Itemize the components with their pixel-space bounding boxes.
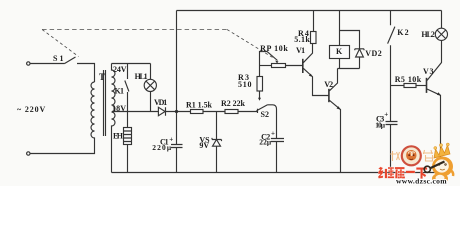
svg-text:S1: S1 <box>53 54 64 63</box>
svg-text:K2: K2 <box>397 28 408 37</box>
svg-text:RP 10k: RP 10k <box>260 44 288 53</box>
svg-text:22μ: 22μ <box>259 138 272 147</box>
svg-text:510: 510 <box>238 80 252 89</box>
svg-text:S2: S2 <box>261 110 270 119</box>
svg-text:~ 220V: ~ 220V <box>17 105 46 114</box>
svg-text:24V: 24V <box>113 65 127 74</box>
svg-text:9V: 9V <box>199 141 209 150</box>
svg-text:VD1: VD1 <box>154 98 167 107</box>
svg-text:5.1k: 5.1k <box>294 35 310 44</box>
svg-text:www.dzsc.com: www.dzsc.com <box>396 177 447 186</box>
svg-text:VD2: VD2 <box>365 49 382 58</box>
svg-text:10μ: 10μ <box>375 121 385 130</box>
svg-text:T: T <box>99 72 105 82</box>
svg-text:K1: K1 <box>115 87 125 96</box>
svg-text:220μ: 220μ <box>152 143 172 152</box>
svg-text:18V: 18V <box>112 104 126 113</box>
svg-text:+: + <box>271 130 275 138</box>
svg-text:V1: V1 <box>296 46 305 55</box>
svg-text:V3: V3 <box>423 67 434 76</box>
svg-text:HL1: HL1 <box>135 72 148 81</box>
svg-text:R2 22k: R2 22k <box>221 99 246 108</box>
svg-text:R5 10k: R5 10k <box>395 75 422 84</box>
svg-text:K: K <box>336 47 343 56</box>
svg-text:+: + <box>384 110 388 118</box>
svg-text:R1 1.5k: R1 1.5k <box>186 100 213 109</box>
svg-text:V2: V2 <box>324 80 333 89</box>
svg-text:HL2: HL2 <box>421 30 435 39</box>
svg-text:EH: EH <box>113 132 124 141</box>
